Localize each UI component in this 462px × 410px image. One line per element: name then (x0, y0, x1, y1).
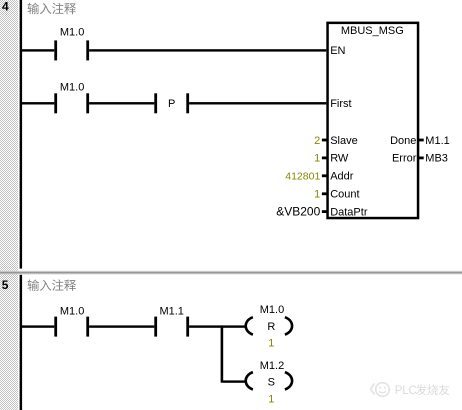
svg-text:1: 1 (268, 338, 274, 350)
svg-text:P: P (168, 98, 175, 110)
svg-text:Count: Count (330, 189, 359, 201)
svg-text:M1.1: M1.1 (425, 135, 449, 147)
svg-text:RW: RW (330, 153, 349, 165)
svg-text:Addr: Addr (330, 171, 354, 183)
svg-text:M1.2: M1.2 (260, 360, 284, 372)
svg-text:PLC: PLC (395, 385, 417, 397)
svg-text:DataPtr: DataPtr (330, 206, 368, 218)
svg-text:M1.0: M1.0 (260, 304, 284, 316)
svg-text:5: 5 (2, 278, 9, 292)
svg-text:1: 1 (268, 394, 274, 406)
svg-text:R: R (267, 321, 275, 333)
svg-text:412801: 412801 (285, 171, 320, 183)
svg-text:M1.0: M1.0 (60, 305, 84, 317)
svg-text:4: 4 (2, 0, 9, 14)
svg-text:M1.0: M1.0 (60, 27, 84, 39)
svg-text:S: S (268, 377, 275, 389)
svg-text:MBUS_MSG: MBUS_MSG (341, 25, 404, 37)
svg-text:1: 1 (314, 153, 320, 165)
svg-text:1: 1 (314, 189, 320, 201)
svg-text:EN: EN (330, 45, 345, 57)
svg-text:Slave: Slave (330, 135, 358, 147)
svg-text:MB3: MB3 (425, 153, 448, 165)
svg-text:Error: Error (392, 153, 417, 165)
svg-text:2: 2 (314, 135, 320, 147)
svg-text:M1.1: M1.1 (159, 305, 183, 317)
svg-text:Done: Done (390, 135, 416, 147)
svg-text:&VB200: &VB200 (276, 204, 320, 218)
svg-text:First: First (330, 98, 351, 110)
svg-text:M1.0: M1.0 (60, 81, 84, 93)
